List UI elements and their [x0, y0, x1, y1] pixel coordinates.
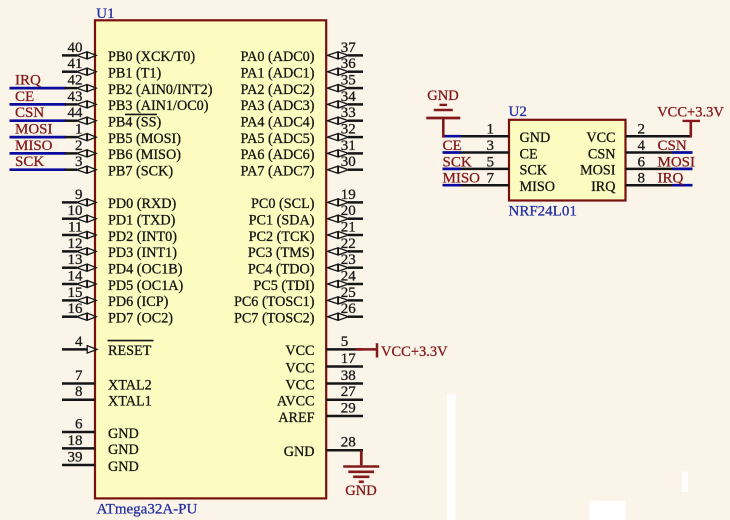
svg-text:VCC: VCC	[285, 377, 314, 393]
svg-text:GND: GND	[427, 88, 458, 104]
svg-text:CE: CE	[15, 89, 34, 105]
svg-text:32: 32	[341, 122, 356, 138]
svg-text:CE: CE	[443, 138, 462, 154]
svg-text:16: 16	[68, 301, 84, 317]
svg-text:39: 39	[68, 449, 83, 465]
svg-text:25: 25	[341, 285, 356, 301]
svg-text:PB0 (XCK/T0): PB0 (XCK/T0)	[108, 49, 195, 65]
svg-text:8: 8	[75, 384, 83, 400]
svg-text:22: 22	[341, 236, 356, 252]
svg-text:20: 20	[341, 203, 356, 219]
svg-text:VCC+3.3V: VCC+3.3V	[381, 344, 448, 360]
svg-text:PB1 (T1): PB1 (T1)	[108, 66, 161, 82]
svg-text:AVCC: AVCC	[277, 394, 315, 410]
svg-text:GND: GND	[108, 459, 139, 475]
svg-text:15: 15	[68, 285, 83, 301]
svg-text:17: 17	[341, 351, 357, 367]
svg-text:PD2 (INT0): PD2 (INT0)	[108, 229, 177, 245]
svg-text:IRQ: IRQ	[658, 171, 684, 187]
svg-text:3: 3	[75, 154, 83, 170]
svg-text:SCK: SCK	[15, 154, 44, 170]
svg-text:33: 33	[341, 105, 356, 121]
svg-text:MOSI: MOSI	[580, 163, 616, 179]
svg-text:30: 30	[341, 154, 356, 170]
svg-text:PD6 (ICP): PD6 (ICP)	[108, 294, 169, 310]
svg-text:PB5 (MOSI): PB5 (MOSI)	[108, 131, 181, 147]
svg-text:CE: CE	[520, 146, 538, 162]
svg-text:PD4 (OC1B): PD4 (OC1B)	[108, 262, 183, 278]
svg-text:13: 13	[68, 252, 83, 268]
svg-text:10: 10	[68, 203, 83, 219]
svg-text:PA3 (ADC3): PA3 (ADC3)	[241, 98, 315, 114]
svg-text:PA0 (ADC0): PA0 (ADC0)	[241, 49, 315, 65]
svg-text:ATmega32A-PU: ATmega32A-PU	[97, 502, 198, 518]
svg-text:PC7 (TOSC2): PC7 (TOSC2)	[234, 311, 315, 327]
svg-text:1: 1	[75, 122, 83, 138]
svg-text:SCK: SCK	[443, 154, 472, 170]
svg-text:PB3 (AIN1/OC0): PB3 (AIN1/OC0)	[108, 98, 209, 114]
svg-text:PB4 (SS): PB4 (SS)	[108, 115, 161, 131]
svg-text:PC3 (TMS): PC3 (TMS)	[248, 245, 315, 261]
svg-text:GND: GND	[108, 442, 139, 458]
svg-text:PA7 (ADC7): PA7 (ADC7)	[241, 164, 315, 180]
svg-text:PA1 (ADC1): PA1 (ADC1)	[241, 66, 315, 82]
svg-text:CSN: CSN	[15, 105, 44, 121]
svg-text:18: 18	[68, 433, 83, 449]
svg-text:PB7 (SCK): PB7 (SCK)	[108, 164, 173, 180]
svg-text:26: 26	[341, 301, 357, 317]
svg-text:CSN: CSN	[658, 138, 687, 154]
svg-text:PD5 (OC1A): PD5 (OC1A)	[108, 278, 184, 294]
svg-text:4: 4	[75, 334, 83, 350]
svg-text:PD3 (INT1): PD3 (INT1)	[108, 245, 177, 261]
svg-text:3: 3	[487, 138, 495, 154]
svg-text:U2: U2	[509, 104, 527, 120]
svg-text:7: 7	[487, 171, 495, 187]
svg-text:PD0 (RXD): PD0 (RXD)	[108, 196, 176, 212]
svg-text:35: 35	[341, 73, 356, 89]
svg-text:RESET: RESET	[108, 343, 152, 359]
svg-text:GND: GND	[108, 426, 139, 442]
svg-text:PA4 (ADC4): PA4 (ADC4)	[241, 115, 315, 131]
svg-text:38: 38	[341, 368, 356, 384]
svg-text:U1: U1	[96, 6, 114, 22]
svg-text:PC1 (SDA): PC1 (SDA)	[249, 213, 315, 229]
svg-text:PC2 (TCK): PC2 (TCK)	[249, 229, 315, 245]
svg-text:MISO: MISO	[443, 171, 481, 187]
svg-text:7: 7	[75, 368, 83, 384]
svg-text:31: 31	[341, 138, 356, 154]
svg-text:6: 6	[75, 416, 83, 432]
svg-text:21: 21	[341, 219, 356, 235]
svg-text:8: 8	[638, 171, 646, 187]
svg-text:44: 44	[68, 105, 84, 121]
svg-text:IRQ: IRQ	[15, 73, 41, 89]
svg-text:23: 23	[341, 252, 356, 268]
svg-text:PB2 (AIN0/INT2): PB2 (AIN0/INT2)	[108, 82, 213, 98]
svg-text:PC0 (SCL): PC0 (SCL)	[251, 196, 315, 212]
svg-text:PA2 (ADC2): PA2 (ADC2)	[241, 82, 315, 98]
svg-text:1: 1	[487, 122, 495, 138]
svg-text:IRQ: IRQ	[591, 179, 615, 195]
svg-text:CSN: CSN	[588, 146, 616, 162]
svg-text:MOSI: MOSI	[15, 122, 53, 138]
svg-text:34: 34	[341, 89, 357, 105]
svg-text:28: 28	[341, 435, 356, 451]
svg-text:24: 24	[341, 268, 357, 284]
svg-text:XTAL1: XTAL1	[108, 394, 152, 410]
svg-text:NRF24L01: NRF24L01	[509, 204, 577, 220]
svg-text:PB6 (MISO): PB6 (MISO)	[108, 147, 181, 163]
svg-text:PA6 (ADC6): PA6 (ADC6)	[241, 147, 315, 163]
svg-text:41: 41	[68, 56, 83, 72]
svg-text:SCK: SCK	[520, 163, 548, 179]
svg-text:12: 12	[68, 236, 83, 252]
svg-text:AREF: AREF	[278, 410, 314, 426]
svg-text:19: 19	[341, 187, 356, 203]
svg-text:VCC+3.3V: VCC+3.3V	[657, 104, 724, 120]
svg-text:9: 9	[75, 187, 83, 203]
svg-text:PC6 (TOSC1): PC6 (TOSC1)	[234, 294, 315, 310]
svg-text:PD1 (TXD): PD1 (TXD)	[108, 213, 176, 229]
svg-text:6: 6	[638, 154, 646, 170]
svg-text:PC4 (TDO): PC4 (TDO)	[248, 262, 315, 278]
svg-text:PA5 (ADC5): PA5 (ADC5)	[241, 131, 315, 147]
svg-text:40: 40	[68, 40, 83, 56]
svg-text:27: 27	[341, 384, 357, 400]
svg-text:PD7 (OC2): PD7 (OC2)	[108, 311, 173, 327]
svg-text:42: 42	[68, 73, 83, 89]
svg-text:VCC: VCC	[285, 360, 314, 376]
svg-text:36: 36	[341, 56, 357, 72]
svg-text:11: 11	[68, 219, 82, 235]
svg-text:2: 2	[75, 138, 83, 154]
svg-text:VCC: VCC	[285, 343, 314, 359]
svg-text:14: 14	[68, 268, 84, 284]
svg-text:PC5 (TDI): PC5 (TDI)	[253, 278, 314, 294]
svg-text:XTAL2: XTAL2	[108, 377, 152, 393]
svg-text:MISO: MISO	[520, 179, 555, 195]
svg-text:5: 5	[341, 334, 349, 350]
svg-text:4: 4	[638, 138, 646, 154]
svg-text:GND: GND	[284, 444, 315, 460]
svg-text:MISO: MISO	[15, 138, 53, 154]
svg-text:2: 2	[638, 122, 646, 138]
svg-text:37: 37	[341, 40, 357, 56]
svg-text:29: 29	[341, 400, 356, 416]
svg-text:GND: GND	[345, 483, 376, 499]
svg-text:5: 5	[487, 154, 495, 170]
svg-text:VCC: VCC	[586, 130, 615, 146]
svg-text:MOSI: MOSI	[658, 154, 696, 170]
svg-text:43: 43	[68, 89, 83, 105]
svg-text:GND: GND	[520, 130, 551, 146]
